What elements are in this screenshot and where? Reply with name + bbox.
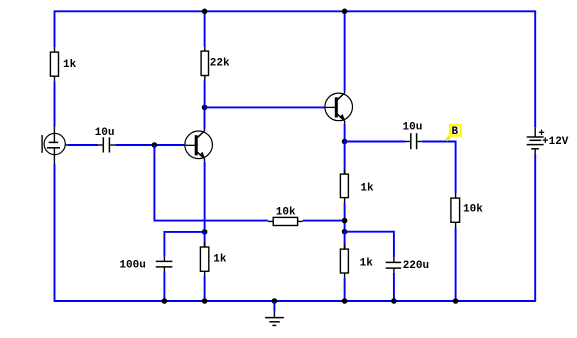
capacitor C1 10u (input coupling) — [98, 137, 115, 152]
node base Q1 junction — [152, 142, 158, 148]
wire 22k to top rail — [204, 11, 206, 46]
capacitor C3 100u (emitter bypass) — [156, 257, 173, 272]
svg-text:10u: 10u — [95, 127, 115, 139]
svg-text:10u: 10u — [403, 122, 423, 134]
wire feedback horizontal to 10k — [154, 220, 268, 222]
node top rail 22k — [202, 9, 208, 15]
transistor Q2 — [325, 91, 353, 124]
node bottom rail 10k right — [453, 298, 459, 304]
wire Q1 emitter down — [204, 162, 206, 232]
node Q1 collector junction — [202, 105, 208, 111]
wire mic to C1 — [68, 144, 98, 146]
wire left rail upper — [54, 10, 56, 47]
svg-text:100u: 100u — [119, 260, 145, 272]
wire 220u to bottom rail — [393, 273, 395, 301]
resistor 22k (Q1 collector load) — [201, 47, 208, 81]
wire 100u to bottom rail — [163, 272, 165, 302]
node feedback junction — [342, 218, 348, 224]
node bottom rail ground tap — [272, 298, 278, 304]
wire collector node to 22k — [204, 81, 206, 108]
transistor Q1 — [185, 129, 213, 162]
node B flag — [446, 125, 460, 140]
svg-text:1k: 1k — [360, 182, 374, 194]
battery V1 +12V — [527, 127, 545, 154]
wire B corner down to 10k — [455, 142, 457, 194]
wire emitter node to C2 — [345, 141, 405, 143]
node bottom rail Q2 leg — [342, 298, 348, 304]
capacitor C2 10u (output coupling) — [405, 133, 422, 149]
wire 1k Q1 emitter to bottom rail — [204, 276, 206, 301]
node bottom rail Q1 emitter leg — [202, 298, 208, 304]
svg-text:22k: 22k — [210, 57, 230, 69]
wire left rail mid — [54, 82, 56, 127]
svg-text:1k: 1k — [360, 257, 374, 269]
node Q2 emitter junction — [342, 139, 348, 145]
resistor 1k (Q2 emitter upper) — [340, 170, 348, 203]
wire feedback vertical from Q1 base — [153, 145, 155, 221]
ground — [265, 312, 284, 326]
node Q1 emitter junction — [202, 229, 208, 235]
wire 220u vertical upper — [393, 231, 395, 257]
svg-text:1k: 1k — [63, 59, 77, 71]
svg-text:10k: 10k — [463, 204, 483, 216]
wire 1k lower to bottom rail — [344, 278, 346, 301]
wire collector node to Q2 base — [205, 106, 325, 108]
wire Q2 collector to top rail — [344, 11, 346, 91]
wire right rail upper — [534, 10, 536, 127]
wire left rail lower — [54, 164, 56, 302]
node bottom rail 100u — [162, 298, 168, 304]
wire 10k feedback to Q2 emitter leg — [303, 220, 345, 222]
resistor 10k (feedback, horizontal) — [268, 217, 303, 225]
svg-text:10k: 10k — [276, 207, 296, 219]
wire 10k right to bottom rail — [455, 228, 457, 302]
resistor 1k (Q1 emitter) — [200, 242, 208, 276]
wire ground stub — [273, 301, 275, 312]
capacitor C4 220u — [386, 257, 401, 273]
wire C1 to Q1 base — [115, 144, 185, 146]
wire right rail lower — [534, 154, 536, 302]
wire 220u node right — [345, 231, 394, 233]
svg-text:220u: 220u — [403, 260, 429, 272]
resistor 1k (input bias, top-left) — [50, 47, 58, 82]
wire Q2 emitter down — [344, 124, 346, 142]
wire C2 to corner B — [422, 141, 456, 143]
wire emitter node down to 1k — [204, 232, 206, 247]
svg-text:1k: 1k — [213, 254, 227, 266]
wire 1k to feedback node — [344, 203, 346, 232]
node bottom rail 220u — [391, 298, 397, 304]
wire Q2 leg to 1k lower — [344, 232, 346, 249]
svg-text:B: B — [452, 126, 459, 138]
resistor 10k (output load, right) — [451, 193, 460, 228]
node 220u junction — [342, 229, 348, 235]
wire top rail — [55, 10, 536, 12]
svg-text:+12V: +12V — [542, 136, 569, 148]
wire bottom rail — [55, 300, 536, 302]
wire emitter node left to 100u — [164, 231, 204, 233]
wire Q1 collector up — [204, 107, 206, 129]
wire Q2 emitter node down to 1k — [344, 142, 346, 175]
wire 100u vertical upper — [163, 231, 165, 257]
microphone MIC (electret) — [42, 126, 68, 164]
resistor 1k (Q2 emitter lower) — [340, 244, 348, 277]
node top rail Q2 collector — [342, 9, 348, 15]
